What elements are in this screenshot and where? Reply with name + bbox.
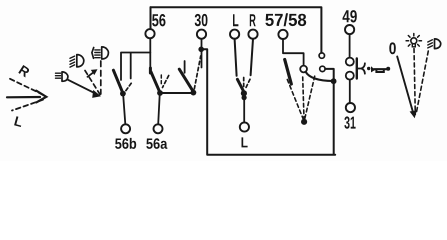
wire 49 down [349, 34, 351, 57]
label R [250, 14, 256, 26]
light switch lever dashed ray 1 [287, 80, 303, 120]
main beam icon (lines) [56, 73, 61, 78]
terminal L [230, 30, 239, 39]
flasher arrow [88, 72, 94, 77]
wire to 31 [349, 80, 351, 103]
light switch lever solid segment [285, 60, 292, 85]
turn switch middle dashed arm [243, 78, 245, 89]
parking light icon (small mirrored lens) [92, 48, 94, 59]
terminal L bottom [240, 122, 249, 131]
dimmer pole c dashed arm to 30 feed [194, 56, 200, 89]
label 56a [146, 138, 167, 149]
main beam icon (lens D) [62, 72, 68, 81]
parking light icon (lines) [95, 50, 100, 58]
dimmer pole a solid arm [113, 70, 123, 93]
terminal 56b [121, 124, 130, 133]
wire 56 down [149, 38, 151, 68]
horn symbol shaft [374, 68, 387, 70]
wire 30 feed around box [201, 49, 335, 154]
wiper bridge arc [306, 72, 333, 81]
light switch 0 solid ray [397, 57, 413, 112]
turn switch solid arm [237, 79, 243, 91]
terminal 56 [145, 29, 154, 38]
horn button contact lower [346, 72, 354, 80]
light switch pointer arrowhead [410, 110, 417, 118]
turn switch junction [241, 90, 247, 96]
terminal 49 [345, 25, 354, 34]
horn button actuator fork [357, 63, 365, 73]
light switch contact 56 [319, 53, 324, 58]
dip beam icon (slanted lines) [70, 56, 75, 67]
horn symbol knob [386, 67, 390, 71]
parking light dashed ray [100, 61, 102, 94]
dimmer pole c contact stub [184, 61, 186, 73]
headlight dashed ray [416, 51, 428, 114]
turn switch right dashed arm [246, 79, 251, 88]
label 57/58 [265, 13, 306, 26]
lever icon solid arrow shaft [7, 96, 40, 99]
wire to 56b [123, 95, 125, 124]
horn button actuator bar [356, 59, 358, 79]
headlight icon right (slanted lines) [428, 40, 433, 48]
dimmer pole b solid arm [150, 68, 159, 92]
label 31 [344, 116, 355, 128]
bulb icon base [412, 44, 415, 47]
light switch pivot [301, 119, 307, 125]
wire 30 down [201, 39, 203, 68]
top bus wire 56 to dimmer contact [151, 7, 322, 52]
terminal 56a [154, 124, 163, 133]
horn symbol loop [376, 70, 383, 72]
headlight icon right (lens D) [435, 39, 441, 49]
terminal 30 [197, 30, 206, 39]
bulb icon rays [406, 34, 421, 47]
horn button actuator tip [367, 67, 370, 70]
light switch lever dashed ray 3 [305, 76, 315, 118]
node bridge junction [331, 78, 337, 84]
label 56 [152, 14, 165, 26]
dip beam icon (lens D) [77, 55, 84, 67]
bulb icon circle [411, 38, 417, 44]
horn button contact upper [346, 58, 354, 66]
dimmer pole b middle dashes [160, 75, 162, 84]
light switch contact 30 [320, 66, 325, 71]
bridge wire between dimmer poles [160, 92, 193, 94]
wire L down [235, 39, 237, 76]
dip beam dashed ray [85, 71, 100, 95]
lever icon dashed ray to R [10, 79, 44, 95]
terminal 31 [346, 103, 355, 112]
node below turn switch [242, 95, 247, 100]
light switch lever dashed ray 2 [303, 77, 304, 119]
parking light icon (lens D) [102, 47, 109, 59]
light switch contact 57/58 [300, 66, 307, 73]
lever icon label L [14, 116, 21, 127]
dimmer pole b junction [157, 90, 163, 96]
light switch position 0 label [389, 42, 396, 54]
node 30 junction [198, 47, 204, 53]
label L (output) [242, 137, 248, 147]
label L [233, 14, 238, 26]
terminal 57/58 [278, 30, 287, 39]
lever icon dashed ray to L [12, 100, 43, 111]
wire R down [251, 39, 253, 75]
horn symbol bell [371, 66, 375, 72]
lever icon arrowhead [36, 91, 46, 103]
wire 57/58 to light switch contact [283, 39, 304, 65]
main beam solid ray with arrowhead [68, 80, 96, 94]
wire to terminal L bottom [243, 96, 245, 123]
bulb dashed ray [414, 49, 415, 115]
label 49 [343, 10, 357, 22]
label 56b [115, 138, 136, 149]
wire to 56a [158, 95, 160, 125]
lever icon label R [18, 65, 29, 78]
terminal R [248, 30, 257, 39]
dimmer pole a dashed arm [125, 83, 131, 92]
dimmer pole b dashed arm [163, 76, 169, 88]
label 30 [195, 14, 208, 26]
dimmer pole c solid arm [179, 69, 193, 92]
dimmer pole a junction [120, 91, 126, 97]
dimmer pole c junction [191, 90, 197, 96]
wire 56 branch left [121, 53, 150, 81]
